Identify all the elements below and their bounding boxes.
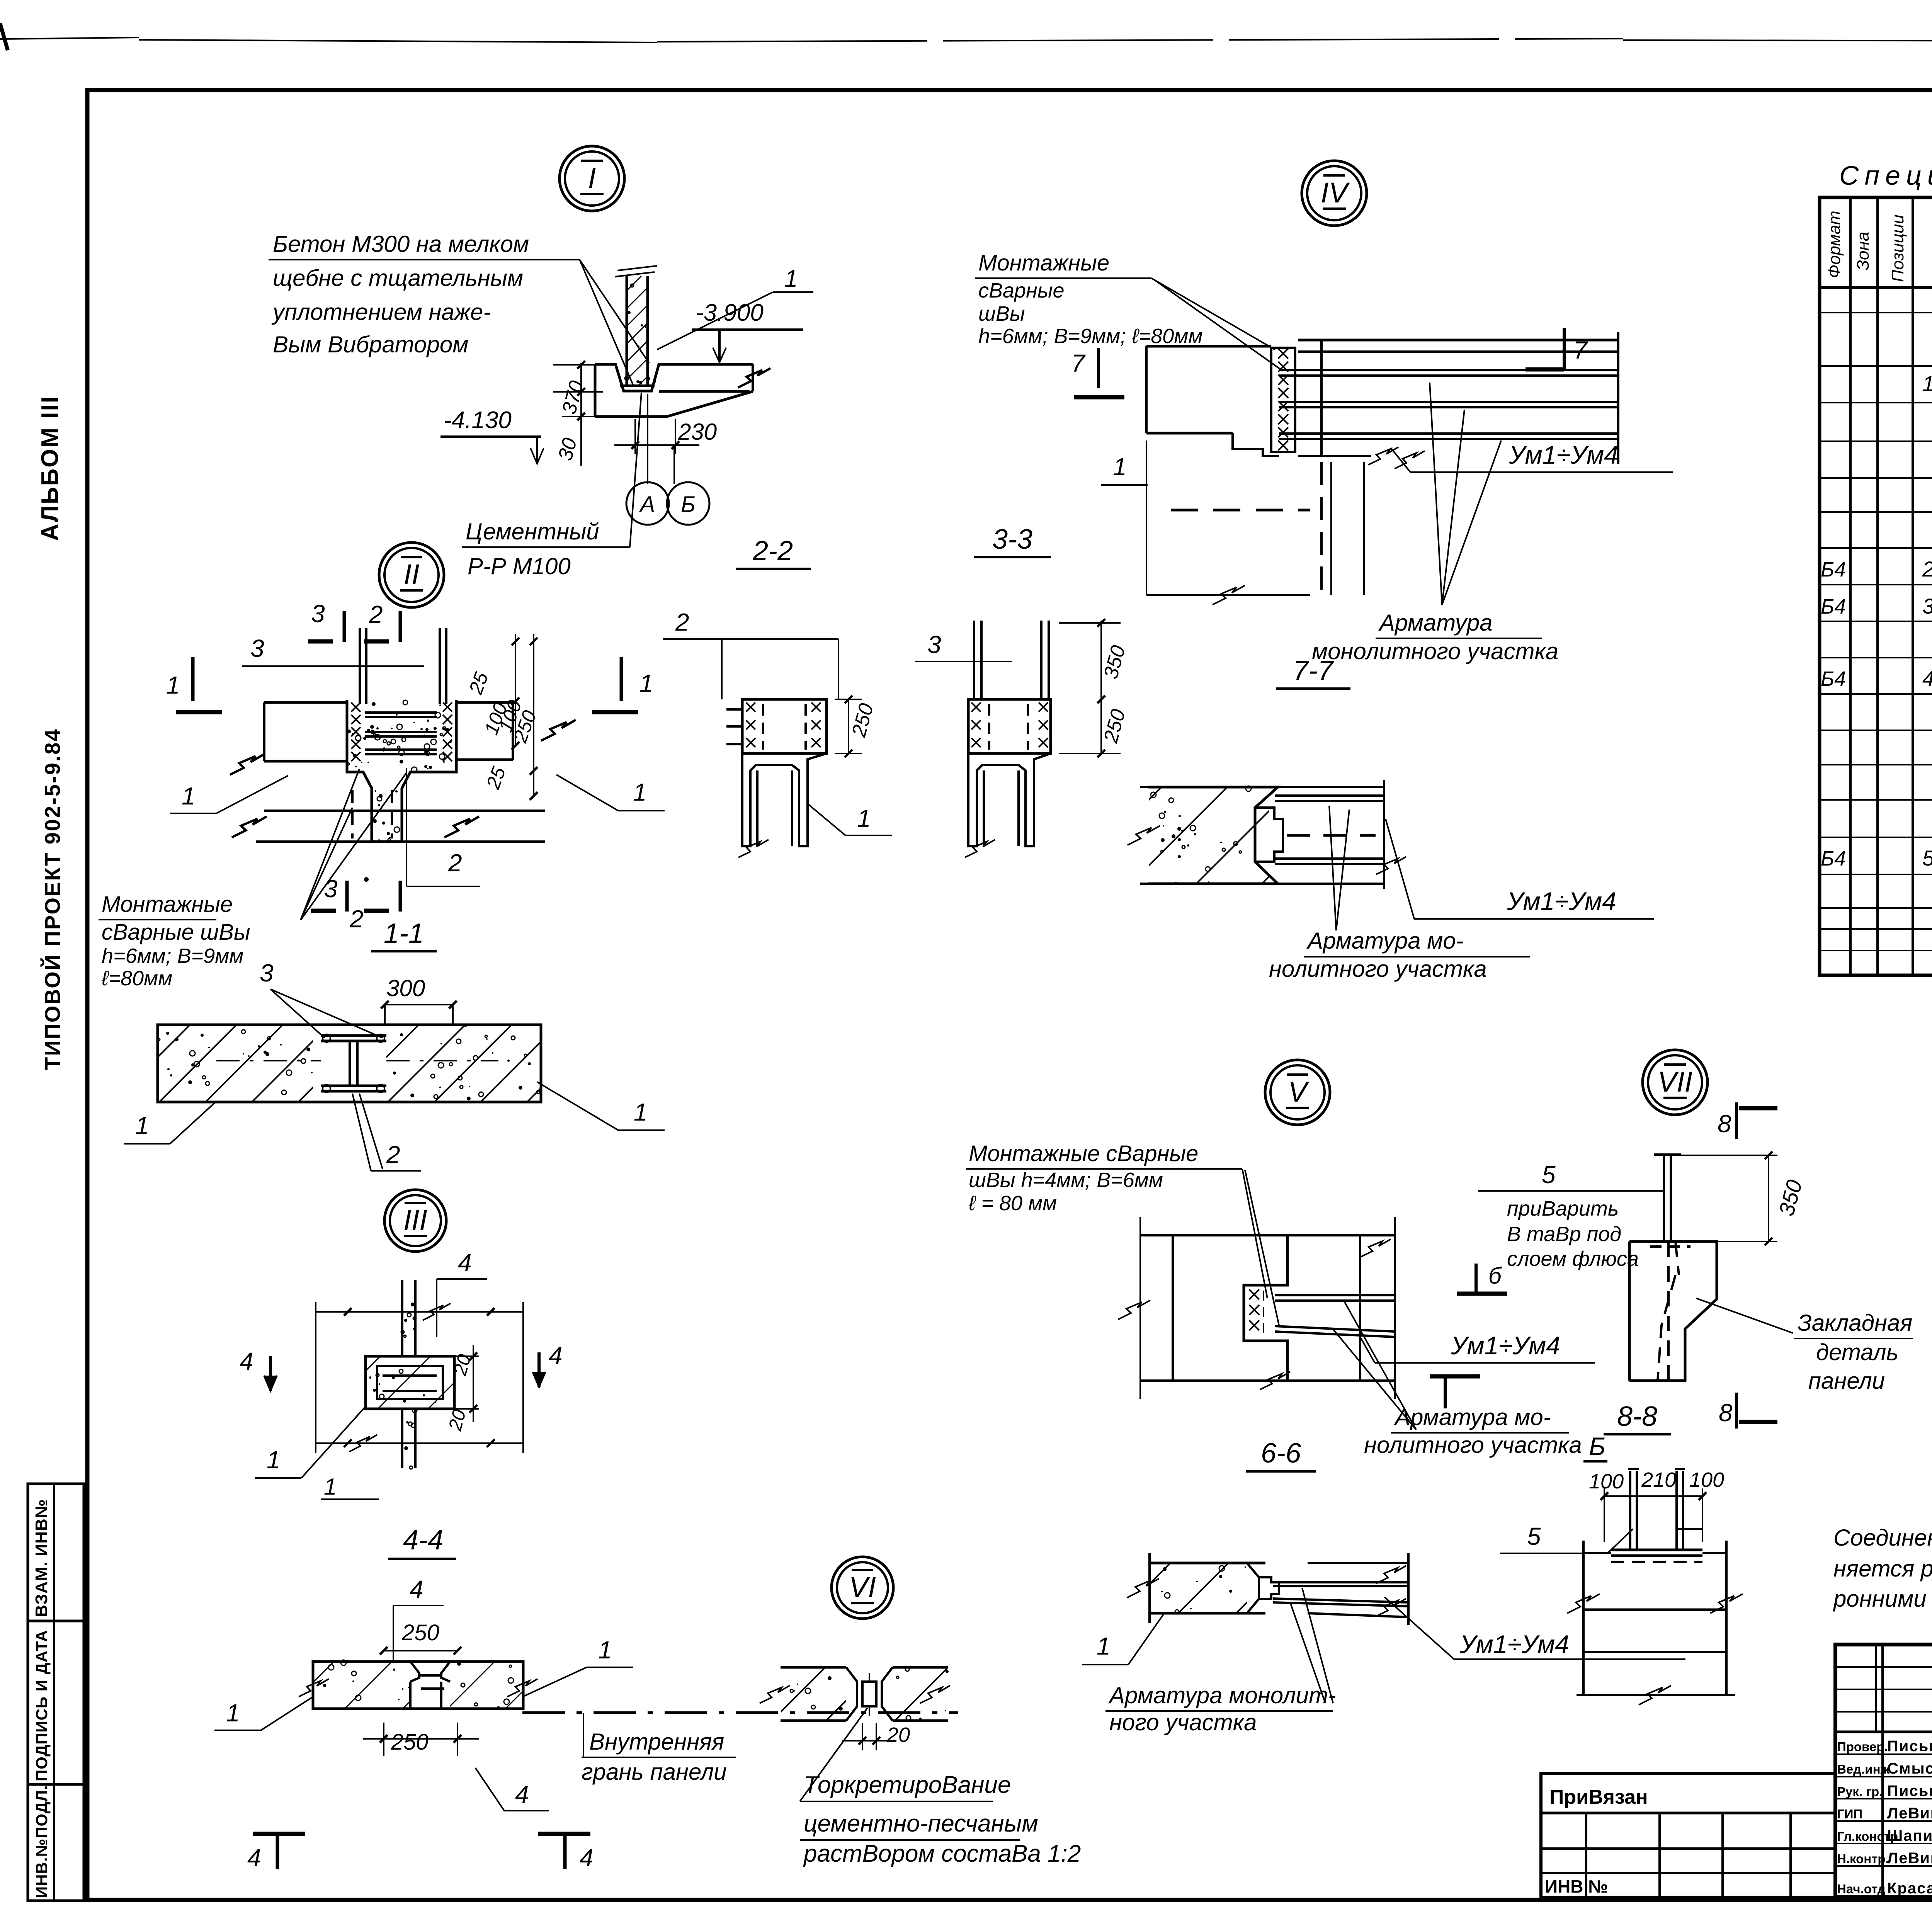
section 1-1 steel joint [216,1034,498,1092]
section 4-4 dim 250 bottom [363,1723,479,1756]
svg-text:Зона: Зона [1854,232,1872,270]
svg-text:5: 5 [1527,1522,1541,1550]
node II right dimension strings [464,634,541,800]
label 3-3 [974,524,1051,557]
svg-text:3-3: 3-3 [992,524,1032,555]
detail B anchor bars [1628,1469,1685,1550]
svg-text:1: 1 [639,669,653,697]
svg-text:АЛЬБОМ III: АЛЬБОМ III [37,395,63,541]
svg-text:сВарные шВы: сВарные шВы [102,920,250,945]
privyazan block [1541,1774,1835,1897]
svg-text:Арматура: Арматура [1378,610,1493,636]
svg-text:КрасаВин: КрасаВин [1887,1880,1932,1897]
section 1-1 leader 1 left [124,1101,216,1144]
title block outer [1835,1645,1932,1897]
svg-text:Позиции: Позиции [1888,214,1907,282]
svg-text:4: 4 [1922,666,1932,690]
svg-text:Формат: Формат [1825,211,1844,278]
svg-text:ИНВ.№ПОДЛ.: ИНВ.№ПОДЛ. [32,1785,51,1898]
svg-text:8: 8 [1718,1110,1731,1138]
title block left grid [1835,1645,1932,1897]
svg-text:Бетон М300 на мелком: Бетон М300 на мелком [273,231,529,257]
svg-text:2: 2 [675,608,689,636]
svg-text:100: 100 [1589,1470,1624,1493]
svg-text:-4.130: -4.130 [444,407,512,434]
svg-text:8: 8 [1719,1399,1733,1427]
inner face note [582,1713,736,1785]
svg-text:300: 300 [386,975,425,1001]
label 1-1 [371,918,437,951]
node VII bubble [1643,1050,1708,1115]
node I leader lines from text [580,260,649,386]
svg-text:Вым Вибратором: Вым Вибратором [273,332,468,357]
svg-text:приВарить: приВарить [1507,1197,1619,1220]
svg-text:IV: IV [1321,177,1350,209]
section 3-3 drawing [915,619,1130,857]
svg-text:Ум1÷Ум4: Ум1÷Ум4 [1507,887,1616,915]
svg-text:ПриВязан: ПриВязан [1549,1786,1648,1808]
section 6-6 mark b top [1457,1263,1507,1294]
title block names [1837,1738,1932,1897]
svg-text:1: 1 [166,671,180,699]
svg-text:ГИП: ГИП [1837,1807,1862,1821]
svg-text:4: 4 [410,1575,423,1603]
detail B baseplate and panel [1567,1541,1743,1705]
svg-text:1: 1 [182,782,196,810]
node III bubble [384,1190,446,1252]
svg-text:Монтажные: Монтажные [978,250,1109,276]
bottom slab drawing with concrete [1005,1553,1408,1625]
svg-text:4: 4 [458,1249,472,1277]
label 6-6 [1246,1438,1316,1471]
svg-text:А: А [639,492,655,517]
svg-text:2: 2 [369,600,383,628]
svg-text:цементно-песчаным: цементно-песчаным [804,1810,1038,1837]
bottom slab leader 1 [1082,1613,1164,1665]
svg-text:ПОДПИСЬ И ДАТА: ПОДПИСЬ И ДАТА [32,1630,51,1781]
svg-text:3: 3 [311,600,325,628]
svg-text:5: 5 [1922,846,1932,870]
svg-text:V: V [1288,1076,1310,1108]
svg-text:шВы: шВы [978,302,1025,325]
svg-text:Б: Б [681,492,696,517]
node VI concrete band [665,1667,1002,1721]
svg-text:Вед.инж: Вед.инж [1837,1762,1890,1776]
section 1-1 dim 300 [381,975,457,1024]
node IV bubble [1302,161,1367,226]
svg-text:h=6мм; В=9мм; ℓ=80мм: h=6мм; В=9мм; ℓ=80мм [978,325,1202,348]
node V bubble [1265,1060,1330,1125]
svg-text:VII: VII [1658,1066,1692,1098]
svg-text:сВарные: сВарные [978,279,1065,302]
section 1-1 leader 3 [260,959,383,1038]
node I vertical dim 370 30 [553,361,603,466]
svg-text:ТИПОВОЙ ПРОЕКТ 902-5-9.84: ТИПОВОЙ ПРОЕКТ 902-5-9.84 [40,728,65,1070]
svg-text:нолитного участка: нолитного участка [1364,1432,1582,1458]
svg-text:100: 100 [1689,1468,1724,1492]
svg-text:Смыслова: Смыслова [1887,1760,1932,1777]
svg-text:ного участка: ного участка [1109,1709,1257,1735]
svg-text:3: 3 [250,634,264,662]
svg-text:5: 5 [1542,1161,1556,1189]
svg-text:II: II [403,558,419,590]
node II leader 1 labels [170,775,665,813]
svg-text:Внутренняя: Внутренняя [589,1729,724,1755]
svg-text:ЛеВина: ЛеВина [1887,1805,1932,1822]
node IV Um1-Um4 label [1391,440,1673,472]
node I cement note [462,393,641,579]
node II bottom section marks 3 2 [311,875,400,933]
svg-text:1: 1 [1097,1632,1111,1660]
svg-text:Ум1÷Ум4: Ум1÷Ум4 [1459,1630,1569,1658]
node VI torqueting note [800,1708,1081,1867]
svg-text:2-2: 2-2 [752,536,793,566]
section 6-6 mark b bottom [1430,1376,1480,1408]
svg-text:Нач.отд: Нач.отд [1837,1882,1886,1896]
svg-text:б: б [1488,1263,1502,1289]
bottom slab Um1-Um4 [1384,1597,1685,1659]
section 7-7 reinforcement label [1269,806,1530,982]
svg-text:Цементный: Цементный [466,519,599,544]
svg-text:4: 4 [580,1844,594,1872]
svg-text:1: 1 [1922,371,1932,396]
svg-text:20: 20 [886,1723,910,1747]
node III plan drawing [228,1280,530,1469]
svg-text:монолитного участка: монолитного участка [1312,638,1558,664]
section 4-4 leader 4 [475,1768,549,1811]
specification table content [1821,328,1932,870]
svg-text:Н.контр.: Н.контр. [1837,1852,1889,1866]
svg-text:3: 3 [1922,594,1932,618]
svg-text:4-4: 4-4 [403,1525,443,1556]
svg-text:7-7: 7-7 [1293,655,1334,686]
specification table grid [1820,197,1932,975]
svg-text:4: 4 [549,1342,563,1369]
svg-text:6-6: 6-6 [1261,1438,1301,1469]
svg-text:Монтажные сВарные: Монтажные сВарные [969,1141,1198,1166]
label 2-2 [736,536,811,569]
svg-text:1: 1 [857,804,871,832]
node II section marks 1 left right [166,657,653,712]
svg-text:250: 250 [401,1620,439,1645]
node I bubble [560,146,624,211]
svg-text:Р-Р М100: Р-Р М100 [468,553,571,579]
svg-text:Б4: Б4 [1821,667,1846,690]
node I dim 230 [614,419,717,454]
svg-text:210: 210 [1641,1468,1676,1492]
section 4-4 leader 1 left [214,1679,329,1730]
svg-text:Арматура мо-: Арматура мо- [1394,1404,1551,1430]
svg-text:Арматура монолит-: Арматура монолит- [1108,1682,1336,1708]
section 6-6 Um1-Um4 label [1360,1331,1595,1363]
svg-text:1: 1 [135,1112,149,1139]
node III section marks 4 4 [240,1342,563,1391]
svg-text:Арматура мо-: Арматура мо- [1306,928,1464,954]
node II section marks top 3 2 [308,600,400,642]
svg-text:III: III [403,1204,427,1236]
sidebar box Vzam inv [28,1484,84,1621]
svg-text:Б4: Б4 [1821,595,1846,618]
detail B label 5 leader [1500,1522,1702,1553]
svg-text:h=6мм; В=9мм: h=6мм; В=9мм [102,944,243,968]
svg-text:Закладная: Закладная [1798,1310,1912,1336]
svg-text:VI: VI [849,1571,876,1603]
welding note text [1833,1525,1932,1612]
svg-text:1: 1 [226,1699,240,1727]
section 4-4 dim 250 top [380,1620,461,1655]
node I level mark -3.900 [692,299,803,362]
svg-text:1: 1 [267,1446,281,1474]
svg-text:3: 3 [260,959,274,987]
svg-text:1-1: 1-1 [384,918,424,949]
svg-text:1: 1 [324,1474,337,1500]
label 7-7 [1276,655,1350,689]
section 4-4 leader 1 right [507,1636,633,1697]
node IV section mark 7 right [1526,328,1588,370]
node II long leader 3 [242,634,424,666]
node IV drawing [1146,332,1618,595]
svg-text:1: 1 [1113,453,1127,481]
bottom slab reinforcement label [1105,1588,1336,1735]
svg-text:ТоркретироВание: ТоркретироВание [804,1772,1011,1798]
svg-text:1: 1 [784,265,798,292]
svg-text:грань панели: грань панели [582,1759,727,1785]
svg-text:8-8: 8-8 [1617,1401,1657,1432]
svg-text:7: 7 [1071,349,1086,377]
detail B name label [1583,1432,1607,1461]
scan top edge line [0,23,1932,50]
svg-text:3: 3 [324,875,338,903]
node II weld leader lines [301,769,406,920]
svg-text:ИНВ №: ИНВ № [1545,1876,1608,1896]
node I wall panel with concrete hatch [496,266,855,386]
section 4-4 bottom section marks 4 4 [247,1832,594,1872]
svg-text:ВЗАМ. ИНВ№: ВЗАМ. ИНВ№ [32,1499,51,1617]
svg-text:ронними шВами.: ронними шВами. [1833,1586,1932,1612]
section 4-4 label 4 top [393,1575,444,1662]
node VII section mark 8 top [1718,1102,1777,1139]
node VII weld label 5 [1478,1161,1664,1270]
svg-text:няется ручной дугоВой сВарк: няется ручной дугоВой сВаркой Внахлестку… [1833,1556,1932,1582]
sidebar box Podpis i data [28,1621,84,1784]
node III label 4 top [437,1249,487,1337]
svg-text:Б: Б [1589,1432,1605,1461]
node II bubble [379,543,444,607]
montage weld note node II [99,892,250,990]
svg-text:2: 2 [1922,557,1932,581]
node IV leader 1 left [1101,453,1148,485]
svg-text:2: 2 [448,849,462,877]
detail B dims 100 210 100 [1589,1468,1724,1542]
node II panel band outline [264,702,513,761]
node I annotation beton M300 [269,231,580,357]
node II protruding rebars [360,628,446,704]
svg-text:Провер.: Провер. [1837,1740,1888,1754]
svg-text:2: 2 [349,905,364,933]
svg-text:1: 1 [633,778,647,806]
node I foundation block outline [595,364,770,417]
svg-text:Шапиро: Шапиро [1887,1827,1932,1844]
svg-text:слоем флюса: слоем флюса [1507,1247,1639,1270]
node VII dim 350 [1677,1151,1807,1245]
node I socket cup [615,363,659,391]
section 7-7 drawing [934,780,1423,889]
svg-text:растВором состаВа 1:2: растВором состаВа 1:2 [803,1840,1081,1867]
svg-text:Спецификация элементоВ на о: Спецификация элементоВ на один узел [1839,160,1932,190]
node IV weld note [975,250,1283,371]
node IV section mark 7 left [1071,348,1124,397]
svg-text:230: 230 [678,419,717,445]
node IV bottom break and verticals [1146,462,1364,605]
svg-text:В таВр под: В таВр под [1507,1223,1621,1246]
svg-text:4: 4 [247,1844,261,1872]
svg-text:Ум1÷Ум4: Ум1÷Ум4 [1451,1331,1560,1360]
label 8-8 [1604,1401,1671,1434]
svg-text:деталь: деталь [1816,1339,1898,1365]
node III corner dims 20 20 [445,1345,479,1433]
specification table headers [1825,211,1932,282]
svg-text:Б4: Б4 [1821,558,1846,581]
node IV arrow to monolith reinforcement [1312,383,1558,664]
section 7-7 Um1-Um4 label [1376,819,1654,919]
svg-text:Рук. гр.: Рук. гр. [1837,1784,1883,1799]
svg-text:ℓ=80мм: ℓ=80мм [101,967,172,990]
section 4-4 concrete band [172,1660,610,1709]
node VII anchor bar [1654,1155,1681,1242]
node V weld note [966,1141,1279,1325]
sidebar box Inv N podl [28,1784,84,1901]
svg-text:Письман: Письман [1887,1738,1932,1755]
svg-text:щебне с тщательным: щебне с тщательным [273,265,523,291]
svg-text:250: 250 [391,1730,429,1755]
section 4-4 dash-dot line [522,1711,958,1714]
svg-text:Монтажные: Монтажные [102,892,233,917]
node I axis circles A B [626,394,709,525]
svg-text:ℓ = 80 мм: ℓ = 80 мм [968,1192,1057,1215]
node II monolith joint with weld [347,700,456,842]
svg-text:I: I [588,162,596,194]
svg-text:4: 4 [515,1781,529,1808]
svg-text:3: 3 [927,631,941,658]
svg-text:шВы h=4мм; В=6мм: шВы h=4мм; В=6мм [969,1168,1163,1192]
section 6-6 reinforcement label [1333,1302,1582,1458]
svg-text:Соединение стержней арматуры: Соединение стержней арматуры между собой… [1833,1525,1932,1551]
svg-text:Письман: Письман [1887,1782,1932,1799]
zakladnaya detal label [1696,1298,1913,1394]
node VI bubble [832,1557,893,1619]
svg-text:Б4: Б4 [1821,847,1846,870]
node VII section mark 8 bottom [1719,1393,1777,1429]
svg-text:ЛеВина: ЛеВина [1887,1850,1932,1867]
svg-text:нолитного участка: нолитного участка [1269,956,1487,982]
section 1-1 leader 2 bottom [352,1094,421,1171]
node VI dim 20 [842,1723,910,1750]
label 4-4 [388,1525,456,1559]
svg-text:2: 2 [386,1141,400,1168]
node II leader 2 vertical [406,768,480,886]
node I level mark -4.130 [440,407,544,464]
section 1-1 concrete band [0,1025,650,1102]
section 6-6 drawing [1118,1217,1395,1399]
node III leader 1 [255,1406,379,1500]
node II lower slab lines [230,720,576,842]
svg-text:уплотнением наже-: уплотнением наже- [271,299,491,325]
node VII bracket outline [1629,1242,1717,1381]
svg-text:4: 4 [240,1347,253,1375]
svg-text:1: 1 [598,1636,612,1664]
svg-text:Ум1÷Ум4: Ум1÷Ум4 [1509,440,1618,469]
svg-text:панели: панели [1808,1368,1885,1394]
section 2-2 drawing [663,608,892,857]
node I leader 1 [657,265,813,350]
svg-text:1: 1 [634,1098,648,1126]
section 1-1 leader 1 right [537,1082,665,1130]
